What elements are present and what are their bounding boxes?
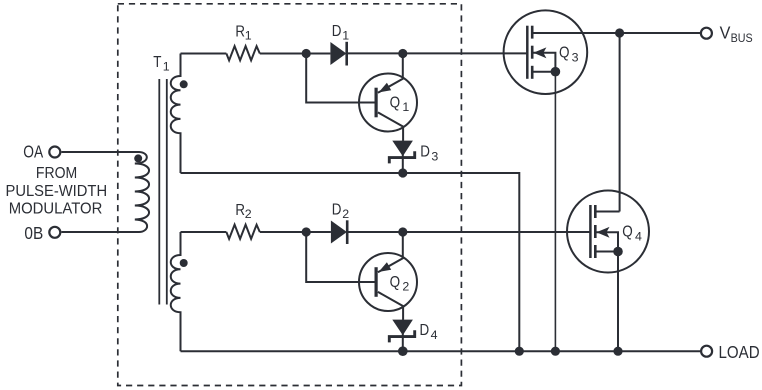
svg-text:D: D [332, 202, 342, 219]
svg-text:1: 1 [402, 100, 409, 114]
diode D1 [330, 42, 346, 66]
svg-text:Q: Q [390, 94, 401, 111]
terminal OA [49, 147, 60, 158]
wire: secondary 2 to R2 [181, 231, 227, 233]
terminal 0B [49, 227, 60, 238]
zener diode D4 [389, 320, 414, 352]
svg-text:PULSE-WIDTH: PULSE-WIDTH [6, 183, 108, 200]
junction: Q3 source/body [551, 67, 561, 77]
svg-text:Q: Q [622, 224, 633, 241]
svg-text:LOAD: LOAD [719, 342, 760, 362]
wire: secondary 1 to R1 [181, 53, 227, 55]
svg-text:R: R [235, 23, 245, 40]
svg-text:4: 4 [635, 229, 642, 243]
svg-text:1: 1 [342, 29, 349, 43]
junction: D3 to return rail [398, 168, 407, 177]
wire: node A to Q1 base [306, 54, 375, 103]
svg-text:Q: Q [390, 274, 401, 291]
wire: Q4 source to common rail [617, 252, 619, 352]
svg-text:3: 3 [431, 150, 438, 164]
svg-text:T: T [153, 54, 161, 71]
svg-text:2: 2 [402, 280, 409, 294]
svg-text:1: 1 [163, 59, 170, 73]
wire: node B to Q2 base [306, 232, 375, 282]
dashed enclosure box (gate-drive circuit boundary) [118, 4, 462, 386]
wire: secondary 1 return rail to common [181, 173, 520, 351]
wire: Q3 source to common rail [554, 72, 556, 352]
transistor Q2 (PNP) [359, 232, 417, 320]
svg-text:4: 4 [431, 328, 438, 342]
junction: D2 cathode / Q2 emitter node [398, 227, 407, 236]
junction: D1 cathode / Q1 emitter node [398, 49, 407, 58]
svg-text:D: D [332, 23, 342, 40]
junction: Q3 source to common rail [551, 347, 560, 356]
svg-text:2: 2 [245, 207, 252, 221]
terminal VBUS [701, 28, 712, 39]
svg-text:D: D [420, 322, 430, 339]
zener diode D3 [389, 141, 414, 173]
svg-text:D: D [420, 144, 430, 161]
junction: node B (R2/D2/Q2 base) [302, 227, 311, 236]
junction: node A (R1/D1/Q1 base) [302, 49, 311, 58]
wire: 0B terminal to primary [61, 231, 139, 233]
svg-text:OA: OA [23, 142, 43, 162]
svg-text:1: 1 [245, 29, 252, 43]
wire: VBUS rail down to Q4 drain [619, 33, 621, 212]
junction: Q4 source to common rail [613, 347, 622, 356]
svg-text:3: 3 [572, 50, 579, 64]
transformer T1 secondary winding 2 [171, 232, 181, 351]
junction: Q4 source/body [613, 247, 623, 257]
svg-text:2: 2 [342, 207, 349, 221]
junction: D4 to common rail [398, 346, 408, 356]
transformer T1 secondary winding 1 [171, 54, 181, 174]
terminal LOAD [701, 346, 712, 357]
wire: Q3 drain to VBUS terminal [532, 32, 700, 34]
polarity dot (primary) [134, 154, 142, 162]
wire: D1 to Q3 gate [347, 52, 527, 54]
wire: R1 to D1 [260, 53, 331, 55]
svg-text:0B: 0B [24, 223, 43, 243]
wire: R2 to D2 [260, 231, 331, 233]
transformer T1 primary winding [135, 152, 149, 232]
resistor R2 [226, 225, 259, 239]
svg-text:R: R [235, 202, 245, 219]
svg-text:Q: Q [559, 44, 570, 61]
junction: VBUS rail to Q4 drain [615, 28, 624, 37]
MOSFET Q4 [567, 191, 649, 273]
wire: D2 to Q4 gate [347, 231, 589, 233]
junction: return rail to common rail [515, 347, 524, 356]
transformer T1 core [159, 79, 167, 305]
wire: common rail to LOAD [181, 350, 701, 352]
svg-text:V: V [720, 23, 731, 43]
wire: OA terminal to primary [61, 151, 139, 153]
polarity dot (secondary 2) [180, 259, 188, 267]
svg-text:FROM: FROM [36, 165, 77, 182]
svg-text:MODULATOR: MODULATOR [9, 200, 103, 217]
resistor R1 [226, 46, 259, 60]
transistor Q1 (PNP) [359, 54, 417, 141]
diode D2 [331, 220, 347, 244]
MOSFET Q3 [504, 10, 588, 94]
svg-text:BUS: BUS [731, 33, 753, 45]
polarity dot (secondary 1) [180, 80, 188, 88]
